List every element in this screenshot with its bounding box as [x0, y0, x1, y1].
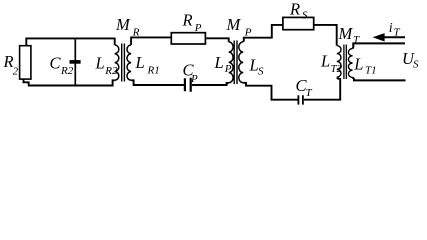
resistor R2 [20, 46, 31, 79]
svg-text:R1: R1 [147, 65, 160, 77]
svg-text:M: M [226, 15, 242, 34]
wire: R_S to M_T drop [314, 25, 337, 46]
svg-text:R2: R2 [60, 65, 74, 77]
capacitor C_R2 vertical wire [74, 39, 76, 86]
svg-text:S: S [258, 65, 264, 77]
wire: C_T to M_T left coil bottom riser [304, 77, 340, 99]
wire: M_R right riser and top rail to R_P [131, 37, 171, 45]
resistor R_S [283, 17, 314, 29]
svg-text:P: P [190, 73, 198, 85]
transformer M_R left coil L_R2 [115, 45, 119, 80]
transformer M_T core [344, 45, 346, 80]
svg-text:L: L [95, 53, 105, 72]
svg-text:L: L [320, 52, 330, 71]
transformer M_P left coil L_P [229, 42, 233, 83]
svg-text:T: T [394, 27, 401, 39]
current arrow i_T shaft [384, 36, 406, 38]
capacitor C_P [185, 78, 191, 92]
capacitor C_R2 plate bar [70, 60, 81, 64]
wire: C_P to M_P left bottom step [192, 83, 229, 85]
transformer M_P core [234, 41, 237, 85]
resistor R_P [171, 33, 205, 44]
svg-text:C: C [50, 53, 62, 72]
transformer M_T left coil L_T2 [337, 46, 341, 78]
transformer M_T right coil L_T1 [348, 49, 352, 78]
svg-text:L: L [353, 55, 363, 74]
svg-text:P: P [224, 63, 232, 75]
svg-text:L: L [135, 53, 145, 72]
capacitor C_T [298, 95, 303, 104]
svg-text:P: P [194, 22, 202, 34]
svg-text:R: R [289, 0, 300, 18]
svg-text:P: P [244, 27, 252, 39]
svg-text:S: S [413, 59, 419, 71]
wire: M_T right coil top to right port top rail [353, 43, 405, 48]
wire: R_P to M_P left riser [206, 38, 229, 42]
svg-text:i: i [389, 21, 393, 36]
current arrow i_T head [373, 33, 385, 41]
svg-text:T2: T2 [331, 63, 343, 75]
svg-text:L: L [214, 53, 224, 72]
transformer M_R right coil L_R1 [127, 45, 131, 80]
svg-text:M: M [338, 24, 354, 43]
svg-text:M: M [115, 15, 131, 34]
transformer M_R core [122, 44, 125, 82]
wire: M_T right coil bottom to right port bottom rail [353, 77, 406, 80]
svg-text:S: S [302, 10, 308, 22]
wire: M_P right riser, S-loop top rail to R_S [243, 25, 282, 42]
svg-text:2: 2 [13, 66, 19, 78]
svg-text:T1: T1 [365, 64, 377, 76]
transformer M_P right coil L_S [239, 42, 243, 83]
svg-text:R: R [182, 11, 193, 30]
wire: M_R right bottom step and mid bottom rail to C_P [131, 80, 184, 85]
wire: left loop top rail with R2 top stub and M_R left riser [26, 38, 114, 45]
wire: left loop bottom rail with R2 bottom stub and M_R left step [24, 79, 115, 85]
svg-text:T: T [306, 87, 313, 99]
wire: M_P right bottom step and rail to drop, low rail to C_T [243, 83, 297, 100]
